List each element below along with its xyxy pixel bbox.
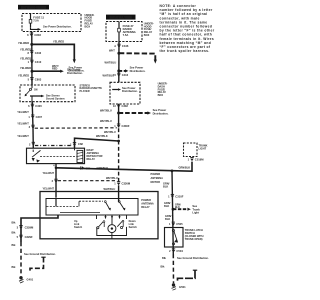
svg-text:WHT/BLU: WHT/BLU	[104, 187, 116, 191]
box trunk light (dashed)	[184, 143, 198, 157]
wire arrow radio feed See Power Distribution	[32, 64, 83, 75]
svg-text:MOTOR: MOTOR	[151, 180, 161, 184]
box trunk latch switch	[165, 228, 184, 248]
relay coil and contact internals	[32, 148, 83, 162]
wire thick dashed arrow See Power Distribution	[119, 108, 169, 115]
wire stub ground lead elbow (right)	[178, 270, 198, 280]
wire left column trunk	[31, 44, 33, 85]
label GRN/BLK	[165, 214, 172, 221]
svg-text:Light: Light	[192, 211, 199, 215]
svg-text:See Power Distribution.: See Power Distribution.	[43, 25, 72, 29]
svg-text:C803: C803	[35, 78, 42, 82]
svg-text:Blk: Blk	[12, 265, 17, 269]
relay pins to switches	[97, 215, 127, 224]
svg-text:Blk: Blk	[12, 220, 17, 224]
svg-text:C330F: C330F	[122, 124, 130, 128]
connector C505 pin 1	[169, 222, 183, 226]
switch radio on-signal	[25, 85, 38, 102]
fuse F11 FUSE 11 7.5A	[29, 14, 44, 28]
svg-text:C320: C320	[35, 104, 42, 108]
svg-text:Distribution.: Distribution.	[67, 71, 83, 75]
svg-text:HOT IN ACC OR RUN: HOT IN ACC OR RUN	[21, 6, 46, 9]
connector C519M pin 1	[188, 158, 205, 162]
node F junction WHT/BLK branch	[117, 140, 120, 143]
svg-text:C416: C416	[122, 73, 129, 77]
wire antenna box to left ground column	[21, 215, 58, 276]
wire thick arrow See Trunk Light	[173, 204, 200, 214]
connector C330M pin 1	[114, 182, 131, 186]
svg-text:ANTENNA: ANTENNA	[151, 176, 164, 180]
connector C433 pin 8	[27, 51, 41, 55]
label Blk	[12, 220, 17, 224]
box stereo radio/cassette player (dashed)	[20, 85, 75, 102]
svg-text:C410: C410	[35, 60, 42, 64]
svg-text:C519M: C519M	[195, 158, 204, 162]
label YEL/WHT	[17, 134, 29, 138]
wire arrow See Stereo Sound System	[30, 94, 65, 101]
wire C307 down to pin 2	[32, 128, 34, 148]
svg-text:BLK: BLK	[164, 204, 169, 208]
node D junction	[117, 69, 120, 72]
svg-text:C82: C82	[78, 142, 83, 146]
node pin 3 with dashed spoiler wire	[29, 125, 117, 129]
svg-text:WHT: WHT	[109, 48, 115, 52]
down link switch contact	[117, 220, 124, 228]
node C junction	[117, 52, 120, 55]
box under-dash fuse/relay box (dashed)	[110, 82, 140, 104]
label YEL/WHT	[43, 186, 55, 190]
label POWER ANTENNA MOTOR	[151, 172, 164, 184]
wire YEL/RED feed to See Power Distribution	[32, 39, 85, 72]
wire fuse 11 to See Power Distribution arrow	[31, 25, 72, 31]
label YEL/WHT	[43, 171, 55, 175]
label UNDER-HOOD FUSE/RELAY BOX (left)	[85, 13, 95, 29]
svg-text:YEL/WHT: YEL/WHT	[43, 186, 55, 190]
svg-text:Blk: Blk	[161, 264, 166, 268]
fuse F37 FUSE 37 7.5A	[118, 22, 136, 42]
banner HOT IN ACC OR RUN	[18, 5, 49, 10]
wire relay pin 4 down	[53, 164, 56, 198]
svg-text:Distribution.: Distribution.	[122, 89, 138, 93]
svg-text:ON: ON	[34, 90, 38, 92]
svg-text:C302: C302	[122, 104, 129, 108]
svg-text:Switch: Switch	[129, 225, 138, 229]
svg-text:WHT/BLK: WHT/BLK	[96, 134, 108, 138]
connector C329F pin 5	[17, 235, 33, 239]
svg-text:7.5A: 7.5A	[33, 18, 39, 22]
node H junction	[172, 204, 182, 210]
connector C302 pin 13	[113, 104, 129, 108]
ground G501	[172, 283, 187, 290]
wire stub ground lead elbow (left)	[30, 257, 46, 270]
connector C320 pin 6	[28, 104, 42, 108]
wire trunk latch column	[172, 171, 174, 283]
connector C416 pin 15	[113, 73, 129, 77]
label WHT/BLU	[100, 119, 112, 123]
node A junction	[30, 43, 33, 46]
svg-text:YEL/RED: YEL/RED	[53, 39, 64, 43]
wire thick dashed feed arrow down See Power Distribution	[119, 53, 157, 63]
label TRUNK LATCH SWITCH (CLOSED WITH TRUNK OPEN)	[185, 228, 204, 241]
connector C82 pin 1	[70, 142, 83, 147]
svg-text:TRUNK OPEN): TRUNK OPEN)	[185, 237, 203, 241]
svg-text:C329F: C329F	[25, 235, 33, 239]
label UNDER-DASH FUSE/RELAY BOX	[158, 82, 168, 98]
connector C330F pin 1	[114, 124, 130, 128]
svg-text:LIGHT: LIGHT	[199, 147, 207, 151]
relay contact A	[104, 201, 111, 211]
svg-text:C504: C504	[176, 249, 183, 253]
label STEREO RADIO/CASSETTE PLAYER	[80, 83, 103, 93]
wire C330M into antenna box	[118, 185, 120, 202]
svg-text:G501: G501	[179, 285, 186, 289]
label Blk	[12, 231, 17, 235]
svg-text:Blk: Blk	[12, 243, 17, 247]
svg-text:YEL/WHT: YEL/WHT	[17, 122, 29, 126]
label Up Link Switch	[74, 219, 83, 229]
svg-text:BOX: BOX	[85, 24, 91, 28]
svg-text:HOT AT ALL TIMES: HOT AT ALL TIMES	[110, 17, 132, 20]
svg-text:Sound System: Sound System	[46, 97, 65, 101]
label Blk	[161, 264, 166, 268]
connector C803 (radio) pin 5	[28, 78, 42, 82]
svg-text:WHT/BLU: WHT/BLU	[105, 60, 117, 64]
svg-text:YEL/RED: YEL/RED	[20, 57, 31, 61]
svg-text:C329M: C329M	[25, 226, 34, 230]
connector C346 pin A	[114, 44, 129, 48]
svg-text:RELAY: RELAY	[87, 157, 96, 161]
svg-text:C330M: C330M	[122, 182, 131, 186]
svg-text:A: A	[114, 44, 116, 48]
label YEL/RED	[18, 41, 29, 45]
connector C307 pin 1	[28, 115, 42, 119]
svg-text:BOX: BOX	[158, 93, 164, 97]
connector C504 pin 2	[169, 249, 183, 253]
svg-text:C81: C81	[86, 166, 91, 170]
svg-text:RELAY: RELAY	[141, 205, 150, 209]
svg-text:7.5A: 7.5A	[123, 33, 129, 37]
label See Ground Distribution (right)	[177, 256, 209, 260]
svg-text:YEL/RED: YEL/RED	[20, 66, 31, 70]
svg-text:Switch: Switch	[74, 225, 83, 229]
wire stereo to C320	[31, 102, 34, 129]
wire dashed spoiler segment down	[118, 128, 120, 181]
svg-text:GRN/BLK: GRN/BLK	[179, 166, 191, 170]
motor M	[97, 225, 127, 239]
svg-text:POWER: POWER	[141, 198, 151, 202]
svg-text:WHT/BLU: WHT/BLU	[100, 119, 112, 123]
label UNDER-HOOD FUSE/RELAY BOX (right)	[144, 21, 154, 37]
svg-text:PLAYER: PLAYER	[80, 89, 90, 93]
svg-text:C433: C433	[35, 51, 42, 55]
wire fuse 11 down to node A	[31, 32, 33, 45]
up link switch contact	[97, 221, 105, 229]
connector C310F pin 1	[168, 194, 184, 198]
svg-text:YEL/RED: YEL/RED	[20, 47, 31, 51]
svg-text:YEL/WHT: YEL/WHT	[17, 134, 29, 138]
node E junction	[117, 112, 120, 115]
node pin 2 with dash-dot spoiler wire	[29, 142, 73, 146]
box under-hood fuse/relay box (right, dashed)	[106, 22, 142, 42]
banner HOT AT ALL TIMES	[106, 15, 136, 20]
wire arrow inside under-dash box See Power Distribution	[112, 86, 138, 93]
svg-text:Distribution.: Distribution.	[130, 69, 146, 73]
label WHT/BLU	[106, 176, 118, 180]
connector pin 2 on YEL/WHT wire	[52, 179, 58, 183]
ground G401	[19, 276, 34, 283]
label GRN/BLK	[163, 181, 170, 188]
wire under-dash box down	[118, 104, 120, 128]
label WHT/BLU	[103, 73, 115, 77]
relay linkage dashed	[47, 199, 104, 213]
svg-text:See Ground Distribution.: See Ground Distribution.	[24, 252, 56, 256]
wire short thick arrow See Power Distribution	[119, 66, 146, 73]
wire fuse 37 down	[118, 42, 120, 83]
label YEL/WHT	[17, 110, 29, 114]
svg-text:YEL/WHT: YEL/WHT	[17, 110, 29, 114]
node B junction	[31, 70, 34, 73]
node G junction trunk branch	[171, 170, 174, 173]
svg-text:Blk: Blk	[12, 231, 17, 235]
svg-text:BOX: BOX	[144, 33, 150, 37]
label YEL/WHT	[17, 122, 29, 126]
box power antenna relay (inner)	[46, 199, 138, 216]
label Blk	[12, 265, 17, 269]
svg-text:GRN/BLK: GRN/BLK	[97, 166, 109, 170]
label Blk	[12, 243, 17, 247]
svg-text:RED: RED	[52, 67, 58, 71]
svg-text:YEL/WHT: YEL/WHT	[43, 171, 55, 175]
label WHT/BLU	[104, 130, 116, 134]
label Blk	[162, 256, 167, 260]
label WHT/BLU	[100, 108, 112, 112]
svg-text:ANTENNA: ANTENNA	[141, 202, 154, 206]
wire GRN/BLK row to trunk light	[56, 162, 192, 172]
connector C81	[81, 166, 91, 170]
label YEL/RED	[20, 66, 31, 70]
svg-text:YEL/RED: YEL/RED	[18, 41, 29, 45]
label MAST ANTENNA RETRACTOR RELAY	[87, 148, 103, 161]
svg-text:Blk: Blk	[162, 256, 167, 260]
svg-text:BLK: BLK	[163, 184, 168, 188]
svg-text:C505: C505	[176, 222, 183, 226]
note text block	[160, 4, 215, 53]
label YEL/RED	[18, 74, 29, 78]
connector C803 pin 8	[27, 33, 41, 37]
label WHT/BLU	[104, 187, 116, 191]
wire WHT/BLK branch to relay	[75, 134, 119, 148]
svg-text:WHT/BLU: WHT/BLU	[103, 73, 115, 77]
box under-hood fuse/relay box (left, dashed)	[22, 14, 81, 32]
svg-text:C307: C307	[36, 115, 43, 119]
svg-text:See Ground Distribution.: See Ground Distribution.	[177, 256, 209, 260]
svg-text:C803: C803	[34, 33, 41, 37]
box power antenna assembly	[40, 192, 158, 239]
label Down Link Switch	[129, 219, 138, 229]
connector C410 pin 1	[28, 60, 42, 64]
switch trunk latch contact	[172, 229, 178, 245]
svg-text:WHT/BLU: WHT/BLU	[100, 108, 112, 112]
svg-text:the trunk spoiler harness.: the trunk spoiler harness.	[160, 49, 210, 53]
svg-text:G401: G401	[27, 277, 34, 281]
svg-text:WHT/BLU: WHT/BLU	[106, 176, 118, 180]
label POWER ANTENNA RELAY	[141, 198, 154, 209]
relay contact B	[118, 201, 125, 211]
svg-text:C346: C346	[122, 44, 129, 48]
svg-text:BLK: BLK	[165, 217, 170, 221]
label WHT	[105, 48, 117, 64]
label TRUNK LIGHT	[199, 144, 208, 151]
svg-text:WHT/BLU: WHT/BLU	[104, 130, 116, 134]
connector C329M pin 3	[17, 226, 34, 230]
svg-text:Distribution.: Distribution.	[153, 111, 169, 115]
wire dashed spoiler row y181	[58, 180, 117, 182]
svg-text:POWER: POWER	[151, 172, 161, 176]
node T junction GRN/BLK row	[55, 167, 58, 170]
svg-text:C310F: C310F	[175, 194, 183, 198]
label YEL/RED	[20, 57, 31, 61]
label See Ground Distribution	[24, 252, 56, 256]
box mast antenna retractor relay	[27, 148, 85, 163]
svg-text:YEL/RED: YEL/RED	[18, 74, 29, 78]
label GRN/BLK	[164, 201, 171, 208]
label YEL/RED	[20, 47, 31, 51]
